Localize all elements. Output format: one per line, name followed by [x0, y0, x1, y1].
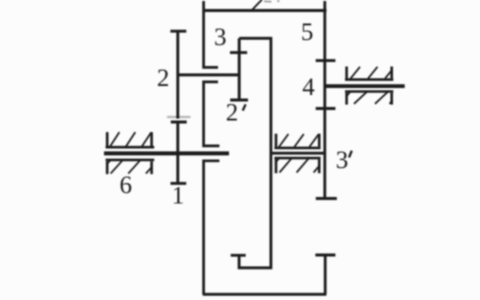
bearing 3' upper hatching — [279, 134, 319, 147]
svg-text:2: 2 — [226, 100, 239, 127]
bearing 3' housing upper block — [274, 134, 320, 148]
ring gear 5 left rim segment C — [204, 161, 220, 295]
gear 4 upper tooth tick — [316, 59, 336, 62]
output shaft bearing upper hatching — [351, 67, 392, 79]
bottom-right gear T-tick — [315, 254, 335, 257]
svg-text:2: 2 — [157, 65, 170, 92]
leader line to label H (cut off at top) — [252, 0, 263, 11]
planet gear bar (gears 3 and 2') — [230, 38, 248, 100]
bearing 3' housing lower block — [274, 158, 320, 173]
output shaft bearing lower block — [345, 92, 393, 105]
input shaft (bearing 6 shaft) — [104, 151, 229, 155]
upper shaft (gear 2 shaft) — [177, 73, 241, 76]
svg-text:6: 6 — [120, 172, 133, 199]
bearing 6 housing lower block — [106, 160, 155, 174]
gear 5 / gear 4 shaft vertical right — [323, 1, 326, 199]
gear 1 — [171, 121, 187, 183]
ring gear 5 left rim segment B — [204, 82, 220, 146]
output shaft bearing upper block — [345, 67, 393, 80]
carrier arm H — [239, 38, 271, 267]
output shaft (gear 4 shaft) — [326, 84, 405, 88]
output shaft bearing lower hatching — [347, 92, 392, 104]
ring gear 5 left rim segment A — [204, 1, 218, 67]
central axis line at bearing 3' — [272, 152, 325, 155]
gear 4 lower tooth tick — [316, 107, 336, 110]
bottom-right gear bar — [324, 255, 327, 294]
svg-text:1: 1 — [172, 182, 185, 209]
label 2' prime mark — [243, 104, 246, 110]
svg-text:3: 3 — [336, 147, 349, 174]
carrier end gear T-tick — [231, 254, 246, 257]
bearing 6 upper hatching — [110, 132, 152, 147]
gear tooth T-end of right vertical — [316, 197, 337, 200]
svg-text:4: 4 — [302, 74, 315, 101]
bearing 6 housing upper block — [106, 132, 155, 147]
cut-off label remnant — [264, 0, 280, 3]
svg-text:3: 3 — [214, 24, 227, 51]
bearing 6 lower hatching — [107, 160, 151, 174]
label 3' prime mark — [349, 151, 352, 158]
housing bottom rim — [203, 293, 327, 296]
svg-text:5: 5 — [301, 19, 314, 46]
gear 2 — [167, 31, 191, 118]
ring gear 5 top rim — [203, 9, 327, 12]
bearing 3' lower hatching — [276, 158, 319, 172]
